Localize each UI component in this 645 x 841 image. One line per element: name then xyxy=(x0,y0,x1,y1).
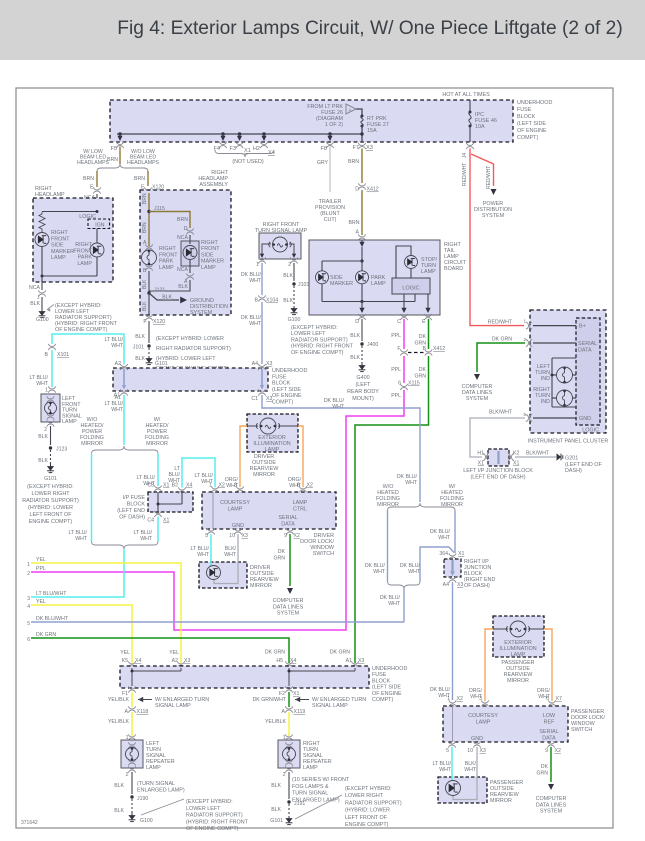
svg-text:LT BLU/WHT: LT BLU/WHT xyxy=(36,591,67,597)
svg-text:(EXCEPT HYBRID:: (EXCEPT HYBRID: xyxy=(291,325,338,331)
wire BLK to ground distribution arrow xyxy=(149,293,179,300)
svg-text:BLK: BLK xyxy=(38,434,48,440)
wire ORG/WHT right driver xyxy=(298,426,303,487)
ground G101 assembly xyxy=(146,356,153,365)
svg-text:LAMP: LAMP xyxy=(228,507,243,513)
wire DK BLU/WHT junction block to passenger switch xyxy=(452,582,454,700)
wire BRN to tail lamp board xyxy=(361,190,363,235)
svg-text:BLK: BLK xyxy=(30,301,40,307)
svg-text:F5: F5 xyxy=(110,146,117,152)
svg-text:X2: X2 xyxy=(457,696,463,702)
svg-text:ENGINE COMPT): ENGINE COMPT) xyxy=(345,822,389,828)
svg-text:WHT: WHT xyxy=(373,569,386,575)
junction J121 xyxy=(147,291,150,294)
LED stop turn lamp xyxy=(405,256,418,269)
bus line inside fuse block xyxy=(117,133,362,135)
svg-text:PARK: PARK xyxy=(78,255,93,261)
wire LT BLU/WHT B2 to courtesy xyxy=(182,458,215,488)
svg-text:SYSTEM: SYSTEM xyxy=(466,396,489,402)
underhood fuse block middle box xyxy=(113,368,268,391)
connector C3 X1 xyxy=(154,485,161,491)
svg-text:1: 1 xyxy=(523,319,526,324)
connectors bottom passenger switch xyxy=(448,741,455,747)
wire BLK side marker down xyxy=(149,280,190,291)
svg-text:INSTRUMENT PANEL CLUSTER: INSTRUMENT PANEL CLUSTER xyxy=(528,439,609,445)
connector pin 1 turn signal xyxy=(258,257,265,263)
connector D X412 xyxy=(358,183,365,189)
wire YEL/BLK to right repeater xyxy=(288,712,290,736)
svg-text:GRN: GRN xyxy=(414,374,426,380)
svg-text:GRN: GRN xyxy=(536,771,548,777)
bus drop arrows to pins xyxy=(119,134,121,137)
svg-text:DK GRN: DK GRN xyxy=(492,337,512,343)
underhood fuse block (top) xyxy=(110,100,513,142)
svg-text:C1: C1 xyxy=(251,396,258,402)
pin E arrow xyxy=(427,294,429,309)
svg-text:PPL: PPL xyxy=(391,367,401,373)
inner top bus xyxy=(42,211,97,213)
svg-text:1 OF 2): 1 OF 2) xyxy=(325,122,343,128)
svg-text:RADIATOR SUPPORT): RADIATOR SUPPORT) xyxy=(186,813,243,819)
wire RED/WHT to instrument cluster xyxy=(470,149,524,326)
svg-text:1: 1 xyxy=(27,562,30,568)
svg-text:BRN: BRN xyxy=(177,217,188,223)
svg-text:(HYBRID: LOWER: (HYBRID: LOWER xyxy=(28,505,73,511)
svg-text:SIGNAL LAMP: SIGNAL LAMP xyxy=(312,703,348,709)
svg-text:D: D xyxy=(355,187,359,193)
svg-text:MIRROR: MIRROR xyxy=(253,472,275,478)
svg-text:X3: X3 xyxy=(184,658,190,664)
LED side marker board xyxy=(316,271,329,284)
wire DK BLU/WHT w/o heated 2 xyxy=(387,511,389,582)
svg-text:ENLARGED LAMP): ENLARGED LAMP) xyxy=(137,788,185,794)
underhood fuse block bottom box xyxy=(120,666,369,688)
svg-text:DK GRN: DK GRN xyxy=(330,650,350,656)
svg-text:A2: A2 xyxy=(115,361,121,367)
svg-text:10: 10 xyxy=(229,533,235,539)
inner wire courtesy xyxy=(212,492,214,529)
svg-text:C3: C3 xyxy=(147,483,154,489)
svg-text:X3: X3 xyxy=(457,582,463,588)
logic inner dashed box xyxy=(576,318,600,425)
svg-text:SWITCH: SWITCH xyxy=(571,727,592,733)
svg-text:OF DASH): OF DASH) xyxy=(464,583,490,589)
svg-text:SIDE: SIDE xyxy=(51,243,64,249)
inner buses bottom fuse block xyxy=(131,668,133,686)
svg-text:BLOCK: BLOCK xyxy=(127,502,146,508)
svg-text:WHT: WHT xyxy=(75,536,88,542)
svg-text:X2: X2 xyxy=(219,483,225,489)
svg-text:G100: G100 xyxy=(140,818,153,824)
wire LT BLU/WHT to driver mirror xyxy=(210,534,212,566)
connector C4 X1 xyxy=(154,511,161,517)
svg-text:1: 1 xyxy=(45,388,48,394)
svg-text:2: 2 xyxy=(288,262,291,268)
svg-text:LAMP: LAMP xyxy=(146,765,161,771)
wire LT BLU/WHT to left front turn signal xyxy=(51,350,53,387)
pin C arrow xyxy=(403,294,405,309)
ground G201 xyxy=(557,454,563,461)
junction J103 xyxy=(292,282,295,285)
connector B park lamp xyxy=(145,264,152,270)
pin F3 X1 xyxy=(236,142,243,148)
svg-text:H5: H5 xyxy=(276,658,283,664)
svg-text:COMPT): COMPT) xyxy=(372,697,393,703)
svg-text:DASH): DASH) xyxy=(565,468,582,474)
connector B X104 xyxy=(258,295,265,301)
svg-text:UNDERHOOD: UNDERHOOD xyxy=(272,368,307,374)
svg-text:X104: X104 xyxy=(266,298,278,304)
svg-text:BLOCK: BLOCK xyxy=(372,678,391,684)
wire serial data inside cluster xyxy=(533,342,576,344)
connector E right headlamp xyxy=(93,187,100,193)
wire LT BLU/WHT from A1 to brace xyxy=(123,395,125,445)
wire BLK from pin D xyxy=(361,319,363,341)
wire DK GRN/WHT F2 to X119 xyxy=(288,692,290,707)
right front turn signal lamp box xyxy=(259,233,301,259)
brace mirror option merge 2 xyxy=(388,582,421,590)
svg-text:(HYBRID: LOWER LEFT: (HYBRID: LOWER LEFT xyxy=(156,356,216,362)
svg-text:WHT: WHT xyxy=(224,552,237,558)
svg-text:RIGHT: RIGHT xyxy=(75,242,92,248)
svg-text:G201: G201 xyxy=(565,456,578,462)
svg-text:LOWER LEFT: LOWER LEFT xyxy=(186,806,221,812)
wire YEL/BLK to left repeater xyxy=(131,712,133,736)
wire entry to bus xyxy=(361,247,363,261)
arrow computer data lines passenger xyxy=(548,784,554,790)
wire BLK to G100 xyxy=(41,297,43,309)
junction J191 xyxy=(287,800,290,803)
svg-text:BOARD: BOARD xyxy=(444,266,463,272)
svg-text:X1: X1 xyxy=(293,691,299,697)
connector E bottom xyxy=(424,314,431,320)
svg-text:Fig 4: Exterior Lamps Circuit,: Fig 4: Exterior Lamps Circuit, W/ One Pi… xyxy=(117,18,622,39)
fuse RT PRK FUSE 27 15A xyxy=(361,116,363,126)
svg-text:X120: X120 xyxy=(153,319,165,325)
connector pin 2 left repeater xyxy=(128,766,135,772)
svg-text:X412: X412 xyxy=(367,187,379,193)
ground G100 left repeater xyxy=(129,813,136,822)
triangle connector A xyxy=(346,104,356,114)
resistor in right headlamp xyxy=(39,212,45,232)
svg-text:COMPT): COMPT) xyxy=(272,400,293,406)
svg-text:RED/WHT: RED/WHT xyxy=(486,166,492,189)
svg-text:X3: X3 xyxy=(366,145,373,151)
svg-text:RADIATOR SUPPORT): RADIATOR SUPPORT) xyxy=(291,337,348,343)
svg-text:LAMP: LAMP xyxy=(476,720,491,726)
svg-text:BLK: BLK xyxy=(178,284,188,290)
wire B+ inside cluster xyxy=(533,325,576,327)
svg-text:BRN: BRN xyxy=(349,220,360,226)
ip fuse block left end of dash xyxy=(148,492,193,512)
LED right front park lamp xyxy=(90,243,104,257)
wire BRN to right headlamp xyxy=(96,171,98,187)
svg-text:LOGIC: LOGIC xyxy=(582,428,599,434)
svg-text:GRN: GRN xyxy=(273,556,285,562)
junction J101 xyxy=(147,344,150,347)
svg-text:A: A xyxy=(143,240,147,246)
svg-text:(HYBRID: RIGHT FRONT: (HYBRID: RIGHT FRONT xyxy=(186,819,249,825)
wire BLK dashed to G101 xyxy=(148,348,150,356)
svg-text:X412: X412 xyxy=(433,346,445,352)
svg-text:X118: X118 xyxy=(137,709,149,715)
wire ORG/WHT right passenger xyxy=(544,629,552,701)
svg-text:B: B xyxy=(45,352,49,358)
wire marker to bottom bus xyxy=(41,247,43,277)
svg-text:MIRROR: MIRROR xyxy=(81,441,103,447)
connector serial data on cluster xyxy=(526,339,532,346)
svg-text:(EXCEPT HYBRID:: (EXCEPT HYBRID: xyxy=(27,484,74,490)
lamp right front park lamp xyxy=(142,250,157,265)
ground G101 left turn signal xyxy=(47,464,54,473)
svg-text:SYSTEM: SYSTEM xyxy=(190,310,213,316)
connector A side marker xyxy=(186,273,193,279)
wire BLK left repeater xyxy=(131,772,133,794)
svg-text:IND: IND xyxy=(541,376,550,382)
svg-text:PARK: PARK xyxy=(159,259,174,265)
svg-text:5: 5 xyxy=(205,533,208,539)
wire ORG/WHT left passenger xyxy=(485,629,493,701)
board bus to side marker xyxy=(322,260,362,262)
right turn signal repeater lamp box xyxy=(278,740,300,768)
svg-text:DATA: DATA xyxy=(578,347,592,353)
arrow ground distribution system xyxy=(180,297,187,304)
svg-text:BLK: BLK xyxy=(114,808,124,814)
lamp left repeater xyxy=(126,748,139,761)
wire logic to park lamp xyxy=(96,229,98,244)
svg-text:PPL: PPL xyxy=(36,566,46,572)
svg-text:YEL: YEL xyxy=(169,650,179,656)
wire BLK from turn signal pin2 xyxy=(293,263,295,281)
svg-text:FRONT: FRONT xyxy=(201,246,220,252)
svg-text:OF DASH): OF DASH) xyxy=(119,515,145,521)
svg-text:X101: X101 xyxy=(57,352,69,358)
connector F2 X1 bottom xyxy=(285,686,292,692)
svg-text:BRN: BRN xyxy=(83,176,94,182)
wire BRN inside assembly xyxy=(148,193,150,246)
wire side marker to bottom bus xyxy=(321,284,323,302)
svg-text:6: 6 xyxy=(27,637,30,643)
svg-text:OF ENGINE: OF ENGINE xyxy=(272,393,302,399)
connector pin 1 right repeater xyxy=(285,734,292,740)
svg-text:HEADLAMPS: HEADLAMPS xyxy=(77,160,110,166)
connector F X120 below assembly xyxy=(145,314,152,320)
wire park lamp to bottom bus xyxy=(361,284,363,302)
svg-text:364: 364 xyxy=(439,551,448,557)
svg-text:(EXCEPT HYBRID:: (EXCEPT HYBRID: xyxy=(345,786,392,792)
svg-text:2: 2 xyxy=(126,772,129,778)
arrow power distribution xyxy=(491,189,497,195)
pin J4 xyxy=(466,143,473,149)
svg-text:MIRROR: MIRROR xyxy=(490,798,512,804)
svg-text:J400: J400 xyxy=(367,342,378,348)
svg-text:DK: DK xyxy=(541,764,549,770)
svg-text:LAMP: LAMP xyxy=(62,419,77,425)
svg-text:OF ENGINE COMPT): OF ENGINE COMPT) xyxy=(186,826,239,832)
svg-text:F7: F7 xyxy=(352,145,359,151)
svg-text:GND: GND xyxy=(579,416,591,422)
connector C1 X3 bottom xyxy=(258,389,265,395)
svg-text:(EXCEPT HYBRID:: (EXCEPT HYBRID: xyxy=(186,799,233,805)
fuse IPC FUSE 46 10A xyxy=(469,100,471,112)
ground G100 right headlamp xyxy=(39,309,46,318)
connector pin 1 left repeater xyxy=(128,734,135,740)
ground G101 right repeater xyxy=(286,816,293,825)
ground G400 xyxy=(359,363,366,372)
svg-text:5: 5 xyxy=(523,412,526,417)
arrow computer data lines driver xyxy=(287,588,293,594)
svg-text:2: 2 xyxy=(27,571,30,577)
svg-text:G100: G100 xyxy=(36,317,49,323)
wire BLK dashed to G101 right repeater xyxy=(288,804,290,816)
svg-text:X3: X3 xyxy=(480,748,486,754)
svg-text:J190: J190 xyxy=(137,796,148,802)
wire BLK park lamp to J121 xyxy=(148,251,150,254)
passenger door lock window switch box xyxy=(443,706,568,742)
svg-text:1: 1 xyxy=(256,262,259,268)
svg-text:G100: G100 xyxy=(288,317,301,323)
svg-text:(10 SERIES W/ FRONT: (10 SERIES W/ FRONT xyxy=(292,777,350,783)
svg-text:YEL: YEL xyxy=(36,557,46,563)
svg-text:RADIATOR SUPPORT): RADIATOR SUPPORT) xyxy=(345,800,402,806)
svg-text:10: 10 xyxy=(467,748,473,754)
wire BLK/WHT passenger mirror xyxy=(453,747,477,800)
svg-text:UNDERHOOD: UNDERHOOD xyxy=(372,666,407,672)
turn indicator loop xyxy=(552,357,576,359)
svg-text:WHT: WHT xyxy=(36,381,49,387)
svg-text:OF ENGINE COMPT): OF ENGINE COMPT) xyxy=(55,327,108,333)
svg-text:A4: A4 xyxy=(443,582,449,588)
wire DK BLU/WHT w heated 2 xyxy=(454,511,456,554)
svg-text:SWITCH: SWITCH xyxy=(313,551,334,557)
svg-text:X1: X1 xyxy=(513,461,519,467)
connector GND on cluster xyxy=(526,414,532,421)
svg-text:B: B xyxy=(143,268,147,274)
svg-text:(HYBRID: RIGHT FRONT: (HYBRID: RIGHT FRONT xyxy=(291,344,354,350)
lamp exterior illumination driver xyxy=(247,425,258,427)
svg-text:OF ENGINE: OF ENGINE xyxy=(517,128,547,134)
svg-text:BLK: BLK xyxy=(271,807,281,813)
wire RED/WHT to power distribution xyxy=(471,154,494,186)
svg-text:X119: X119 xyxy=(294,709,306,715)
LED right front side marker lamp assembly xyxy=(183,246,197,260)
wire DK GRN serial data xyxy=(477,343,525,372)
wire from triangle to fuse 27 xyxy=(356,109,362,116)
junction J123 xyxy=(49,446,52,449)
svg-text:(LEFT END: (LEFT END xyxy=(117,508,145,514)
svg-text:6: 6 xyxy=(398,381,401,387)
wire BLK dashed to G100 xyxy=(293,286,295,306)
svg-text:BLK: BLK xyxy=(38,458,48,464)
wire GRY trailer provision xyxy=(329,147,331,193)
svg-text:FUSE: FUSE xyxy=(272,374,287,380)
svg-text:MIRROR: MIRROR xyxy=(441,502,463,508)
svg-text:CTRL: CTRL xyxy=(293,507,307,513)
svg-text:SERIAL: SERIAL xyxy=(578,341,597,347)
svg-text:H2: H2 xyxy=(253,146,260,152)
svg-text:REAR BODY: REAR BODY xyxy=(347,389,379,395)
svg-text:GND: GND xyxy=(232,523,244,529)
svg-text:UNDERHOOD: UNDERHOOD xyxy=(517,100,552,106)
svg-text:DK GRN: DK GRN xyxy=(265,650,285,656)
svg-text:F3: F3 xyxy=(229,146,236,152)
connector pin 2 left turn signal xyxy=(47,420,54,426)
pin F4 xyxy=(219,142,226,148)
svg-text:WHT: WHT xyxy=(197,552,210,558)
wire to park lamp LED xyxy=(361,261,363,271)
svg-text:FUSE: FUSE xyxy=(372,672,387,678)
svg-text:A: A xyxy=(282,709,286,715)
svg-text:2: 2 xyxy=(523,337,526,342)
svg-text:DK BLU/WHT: DK BLU/WHT xyxy=(36,616,69,622)
svg-text:J103: J103 xyxy=(298,282,309,288)
svg-text:LAMP: LAMP xyxy=(371,281,386,287)
svg-text:B: B xyxy=(255,298,259,304)
exterior illumination lamp passenger box xyxy=(493,616,544,657)
svg-text:LAMP: LAMP xyxy=(159,265,174,271)
ign dashed box xyxy=(88,219,110,229)
svg-text:BLK: BLK xyxy=(142,301,148,311)
wire LT BLU/WHT w/o heated mirror xyxy=(91,454,93,543)
bus junction dots xyxy=(118,132,121,135)
svg-text:J4: J4 xyxy=(462,153,468,159)
inner bottom bus xyxy=(42,275,97,277)
svg-text:2: 2 xyxy=(283,772,286,778)
svg-text:LAMP: LAMP xyxy=(265,447,280,453)
lamp left front turn signal xyxy=(47,396,54,402)
svg-text:SIDE: SIDE xyxy=(201,252,214,258)
svg-text:BLK: BLK xyxy=(114,783,124,789)
svg-text:J123: J123 xyxy=(56,447,67,453)
pointer line right repeater ground note xyxy=(295,795,342,819)
connector J below right headlamp xyxy=(38,290,45,296)
wire LT BLU/WHT from A2 to left lamp xyxy=(52,334,124,365)
svg-text:C4: C4 xyxy=(147,518,154,524)
svg-text:LEFT FRONT OF: LEFT FRONT OF xyxy=(345,815,388,821)
svg-text:MIRROR: MIRROR xyxy=(507,678,529,684)
svg-text:WHT: WHT xyxy=(111,343,124,349)
svg-text:MIRROR: MIRROR xyxy=(146,441,168,447)
wire NCA into right headlamp xyxy=(96,194,98,212)
svg-text:BLK: BLK xyxy=(162,295,172,301)
svg-text:15A: 15A xyxy=(367,128,377,134)
svg-text:HEADLAMP: HEADLAMP xyxy=(35,192,65,198)
wire DK GRN serial driver xyxy=(289,534,291,586)
svg-text:MARKER: MARKER xyxy=(330,281,353,287)
right ip junction block xyxy=(444,559,461,577)
svg-text:ENGINE COMPT): ENGINE COMPT) xyxy=(29,519,73,525)
svg-text:BLK: BLK xyxy=(271,783,281,789)
lamp right front turn signal xyxy=(262,244,271,255)
svg-text:2: 2 xyxy=(44,427,47,433)
svg-text:(NOT USED): (NOT USED) xyxy=(232,159,264,165)
svg-text:WHT: WHT xyxy=(439,767,452,773)
svg-text:DK: DK xyxy=(419,334,427,340)
svg-text:DATA LINES: DATA LINES xyxy=(273,604,304,610)
connectors bottom of driver switch xyxy=(207,528,214,534)
svg-text:(LEFT SIDE: (LEFT SIDE xyxy=(517,121,546,127)
svg-text:B+: B+ xyxy=(579,324,586,330)
LED passenger mirror xyxy=(446,781,461,796)
svg-text:BLK: BLK xyxy=(350,355,360,361)
wire YEL/BLK F1 to X118 xyxy=(131,692,133,707)
connector F1 bottom xyxy=(128,686,135,692)
wire DK BLU/WHT to fuse block A4 xyxy=(261,302,263,364)
LED driver mirror xyxy=(207,566,221,580)
wire BLK dashed to G100 left repeater xyxy=(131,799,133,813)
inner bus A2-A1 xyxy=(123,369,125,386)
wire LT BLU/WHT below ip fuse block xyxy=(157,517,159,543)
